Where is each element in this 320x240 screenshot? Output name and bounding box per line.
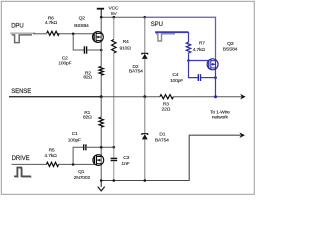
svg-text:DRIVE: DRIVE <box>12 156 30 162</box>
node 1-Wire data arrowhead <box>240 94 246 100</box>
diode D2 BAT54 <box>142 53 148 54</box>
svg-text:VCC: VCC <box>108 5 118 11</box>
node junction Q1 gate / C1 <box>72 163 75 166</box>
node junction VCC / R4 <box>113 16 116 19</box>
svg-text:Q1: Q1 <box>78 169 85 175</box>
svg-text:4.7kΩ: 4.7kΩ <box>44 153 57 159</box>
wire SENSE line <box>9 96 101 98</box>
node junction Q1 drain / C1 <box>100 146 103 149</box>
node junction Q2 drain / C2 <box>100 49 103 52</box>
wire SPU to R7 <box>188 32 190 42</box>
node junction ground / C3 <box>113 179 116 182</box>
wire D1 cathode to SENSE line <box>144 97 146 135</box>
resistor R4 <box>112 40 116 54</box>
svg-text:R3: R3 <box>163 101 169 107</box>
power VCC symbol <box>97 9 104 18</box>
svg-text:BSS84: BSS84 <box>74 23 89 29</box>
border frame (decorative, not labelled further) <box>1 1 254 194</box>
wire R2 to SENSE line <box>100 75 102 97</box>
node junction R7 / C4 / Q3 gate <box>187 59 190 62</box>
capacitor C3 <box>111 158 118 160</box>
node junction VCC / D2 <box>144 16 147 19</box>
resistor R1 <box>99 117 103 127</box>
transistor Q3 BSS84 <box>215 59 217 97</box>
svg-text:D1: D1 <box>159 132 165 138</box>
svg-text:C2: C2 <box>62 55 68 61</box>
node junction R4 / C3 <box>113 146 116 149</box>
wire C4 left leg <box>189 61 198 78</box>
node junction VCC / Q2 source <box>100 16 103 19</box>
wire R5 to Q1 gate <box>59 163 95 165</box>
wire R1 to Q1 drain <box>100 127 102 180</box>
wire R4 down to C3 node (crosses SENSE line) <box>113 53 115 147</box>
svg-text:910Ω: 910Ω <box>119 45 131 51</box>
wire DRIVE to R5 <box>12 163 47 165</box>
resistor R2 <box>99 66 103 75</box>
wire D2 cathode to VCC <box>144 17 146 54</box>
wire C1 right leg to C3 node <box>86 146 114 148</box>
node junction DPU gate / C2 <box>72 33 75 36</box>
capacitor C1 <box>84 144 86 150</box>
svg-text:22Ω: 22Ω <box>162 106 171 112</box>
SPU input pulse waveform symbol <box>155 32 188 41</box>
svg-text:BAT54: BAT54 <box>155 137 169 143</box>
node junction SENSE / D2 D1 <box>143 95 146 98</box>
wire VCC rail (black part) <box>101 16 145 18</box>
svg-text:Q2: Q2 <box>79 16 86 22</box>
svg-text:Q3: Q3 <box>227 41 234 47</box>
wire ground rail <box>101 135 240 180</box>
wire VCC to R4 <box>113 17 115 39</box>
node 1-Wire return arrowhead <box>239 132 245 138</box>
svg-text:100pF: 100pF <box>68 137 81 143</box>
svg-text:R4: R4 <box>123 39 129 45</box>
svg-text:C4: C4 <box>172 72 178 78</box>
node junction ground / D1 <box>144 179 147 182</box>
transistor Q1 2N7002 <box>93 155 104 166</box>
resistor R7 <box>186 42 190 53</box>
svg-text:4.7kΩ: 4.7kΩ <box>193 47 206 53</box>
diode D1 BAT54 <box>142 134 148 135</box>
svg-text:100pF: 100pF <box>58 61 71 67</box>
svg-text:BAT54: BAT54 <box>129 69 143 75</box>
wire R3 to 1-Wire data arrow <box>173 96 241 98</box>
wire Q2 drain to R2 <box>100 50 102 66</box>
svg-text:C1: C1 <box>72 131 78 137</box>
node junction ground / Q1 source <box>100 179 103 182</box>
svg-text:2N7002: 2N7002 <box>74 175 91 181</box>
svg-text:SPU: SPU <box>151 22 163 28</box>
svg-text:R7: R7 <box>199 40 205 46</box>
svg-text:BSS84: BSS84 <box>223 47 238 53</box>
transistor Q2 BSS84 <box>93 32 104 43</box>
capacitor C4 <box>198 74 200 81</box>
node junction Q3 drain / C4 <box>214 76 217 79</box>
wire D2 anode to SENSE line <box>144 59 146 97</box>
wire C4 right leg to Q3 drain <box>201 77 216 79</box>
wire C3 bottom to ground rail <box>113 161 115 181</box>
svg-text:R5: R5 <box>49 147 55 153</box>
svg-text:1nF: 1nF <box>121 161 129 167</box>
resistor R6 <box>47 31 60 35</box>
svg-text:82Ω: 82Ω <box>83 115 92 121</box>
resistor R3 <box>160 95 174 99</box>
node junction Q3 drain / 1-Wire data <box>214 95 217 98</box>
ground symbol <box>98 181 105 191</box>
wire C2 left leg <box>73 34 84 50</box>
svg-text:4.7kΩ: 4.7kΩ <box>45 20 58 26</box>
resistor R5 <box>46 162 58 166</box>
wire C1 left leg <box>73 147 83 164</box>
node junction SENSE / R2 <box>100 95 103 98</box>
svg-text:82Ω: 82Ω <box>83 75 92 81</box>
svg-text:C3: C3 <box>123 155 129 161</box>
svg-text:DPU: DPU <box>11 23 23 29</box>
wire R7 to Q3 gate <box>189 53 209 61</box>
wire C2 right leg to Q2 drain <box>87 49 101 51</box>
svg-text:5V: 5V <box>111 11 118 17</box>
svg-text:SENSE: SENSE <box>11 89 31 95</box>
wire C3 top <box>113 147 115 158</box>
wire Q2 source from VCC rail <box>100 17 102 50</box>
DRIVE input pulse waveform symbol <box>14 167 32 177</box>
wire SENSE to R1 <box>100 97 102 118</box>
capacitor C2 <box>84 46 86 53</box>
wire VCC rail (blue part) <box>145 17 216 59</box>
wire DPU to R6 <box>33 33 47 35</box>
DPU input pulse waveform symbol <box>10 33 35 42</box>
svg-text:100pF: 100pF <box>170 78 183 84</box>
wire D1 anode to ground rail <box>144 139 146 180</box>
wire R6 to Q2 gate <box>59 33 94 35</box>
svg-text:network: network <box>212 114 229 120</box>
